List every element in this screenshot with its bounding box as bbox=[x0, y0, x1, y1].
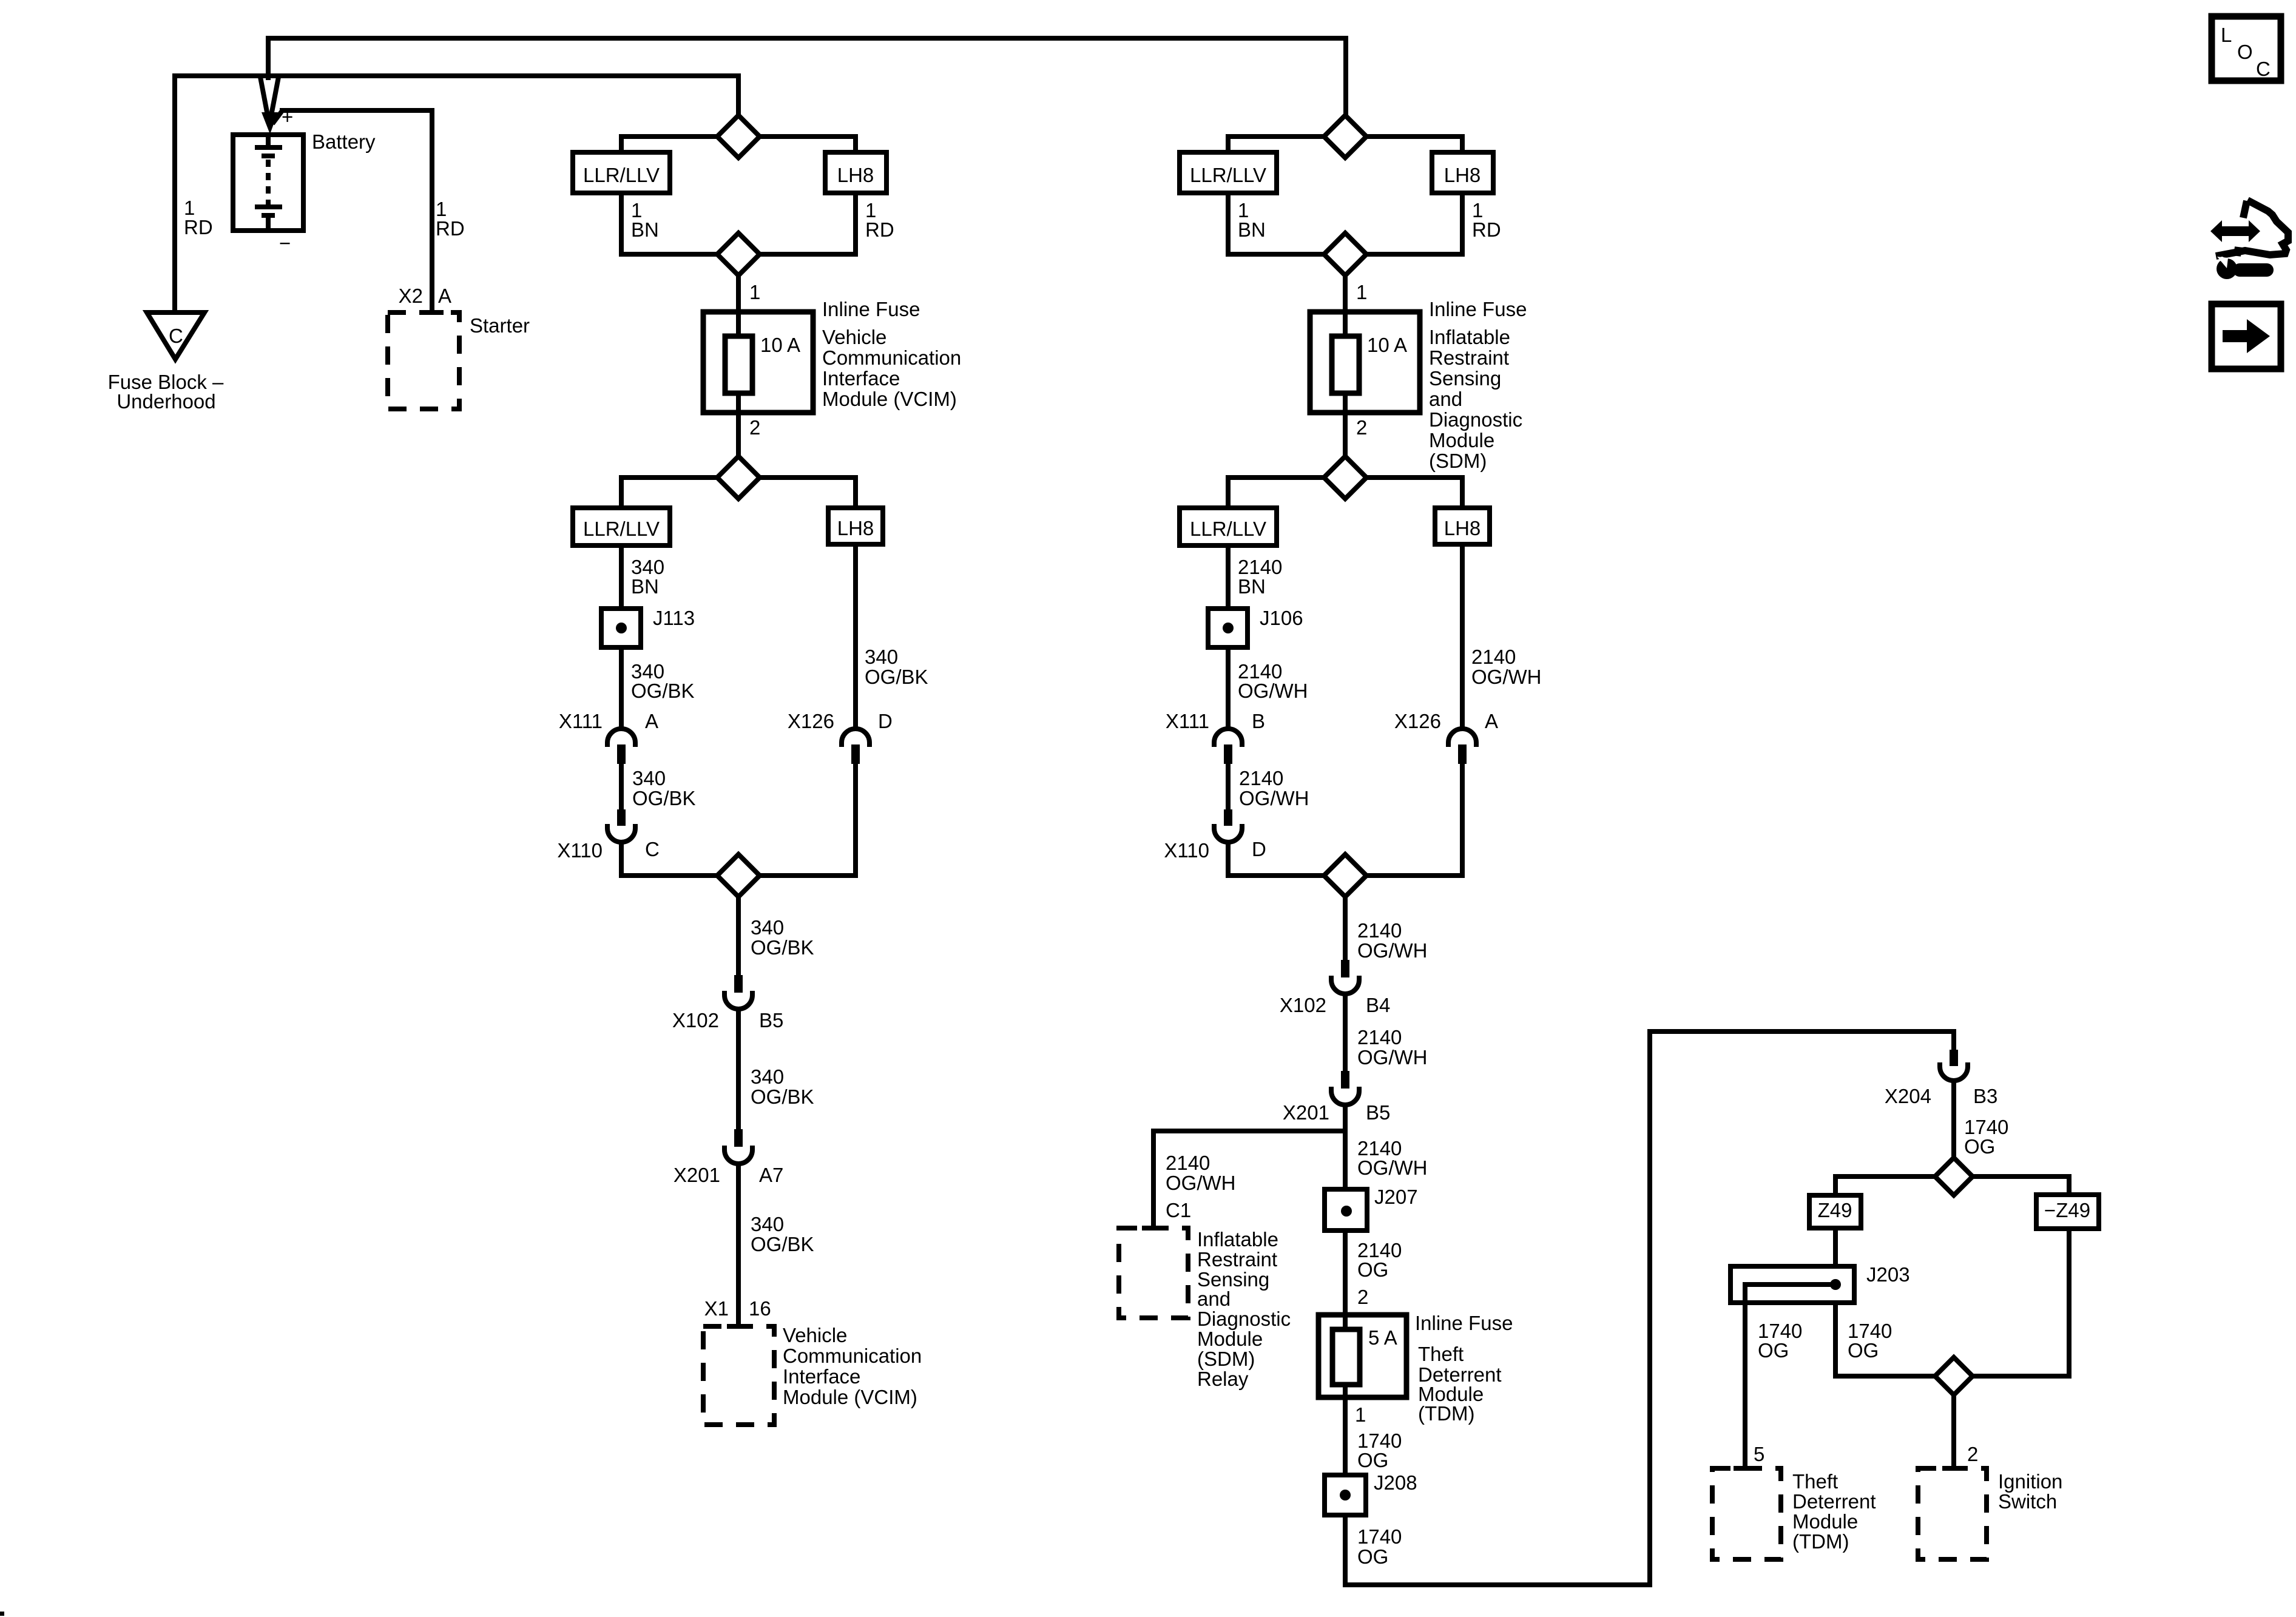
Vehicle Communication Interface Module (VCIM) bbox=[703, 1326, 774, 1425]
wire to fuse pin 1 (VCIM) bbox=[736, 275, 741, 314]
wire 1 RD (SDM) bbox=[1345, 193, 1462, 254]
svg-text:X126: X126 bbox=[788, 710, 834, 732]
svg-text:10 A: 10 A bbox=[1367, 334, 1407, 356]
svg-text:Restraint: Restraint bbox=[1197, 1248, 1277, 1271]
node: SDM split diamond bbox=[1324, 456, 1366, 499]
wire: battery positive second bus to VCIM branch bbox=[175, 76, 738, 312]
svg-text:B: B bbox=[1252, 710, 1265, 732]
svg-text:+: + bbox=[282, 106, 293, 128]
option box LLR/LLV (SDM upper) bbox=[1180, 152, 1277, 193]
svg-text:A: A bbox=[1485, 710, 1498, 732]
svg-text:OG/BK: OG/BK bbox=[751, 1085, 814, 1108]
svg-text:−Z49: −Z49 bbox=[2044, 1199, 2090, 1221]
wire 2140 OG/WH (below merge, SDM) bbox=[1343, 894, 1348, 960]
node: VCIM top splice diamond bbox=[717, 115, 760, 158]
net Z49 bbox=[1809, 1195, 1861, 1228]
svg-text:BN: BN bbox=[1238, 218, 1266, 241]
svg-text:OG/WH: OG/WH bbox=[1357, 1046, 1427, 1068]
svg-text:OG/WH: OG/WH bbox=[1471, 666, 1541, 688]
svg-text:C: C bbox=[169, 325, 183, 347]
svg-text:RD: RD bbox=[184, 216, 213, 238]
splice J208 bbox=[1325, 1475, 1366, 1515]
svg-text:2140: 2140 bbox=[1166, 1152, 1210, 1174]
svg-text:Diagnostic: Diagnostic bbox=[1197, 1308, 1291, 1330]
svg-text:Z49: Z49 bbox=[1818, 1199, 1852, 1221]
node: SDM merge diamond bbox=[1324, 233, 1366, 275]
svg-text:X102: X102 bbox=[672, 1009, 719, 1031]
svg-text:LH8: LH8 bbox=[1444, 164, 1481, 186]
svg-text:1: 1 bbox=[1355, 1403, 1366, 1426]
connector X201 pin B5 (SDM) bbox=[1341, 1071, 1349, 1089]
svg-text:A7: A7 bbox=[759, 1164, 783, 1186]
svg-text:D: D bbox=[1252, 838, 1266, 860]
svg-text:Starter: Starter bbox=[470, 314, 530, 337]
option box LLR/LLV (SDM lower) bbox=[1180, 508, 1277, 545]
svg-text:X126: X126 bbox=[1394, 710, 1441, 732]
svg-text:Ignition: Ignition bbox=[1998, 1470, 2062, 1493]
wire 1 BN (SDM) bbox=[1228, 193, 1345, 254]
svg-text:(TDM): (TDM) bbox=[1792, 1530, 1849, 1553]
wire Z49 to J203 bbox=[1835, 1228, 1954, 1376]
splice J207 bbox=[1325, 1189, 1367, 1230]
svg-text:A: A bbox=[645, 710, 658, 732]
svg-text:X110: X110 bbox=[1164, 839, 1209, 862]
svg-text:OG/BK: OG/BK bbox=[751, 936, 814, 959]
svg-text:OG: OG bbox=[1848, 1339, 1879, 1362]
wire 340 OG/BK (below merge, VCIM) bbox=[736, 894, 741, 975]
node: VCIM split diamond bbox=[717, 456, 760, 499]
svg-text:X102: X102 bbox=[1280, 994, 1326, 1016]
svg-text:Theft: Theft bbox=[1792, 1470, 1838, 1493]
svg-text:B4: B4 bbox=[1366, 994, 1390, 1016]
svg-text:LH8: LH8 bbox=[1444, 517, 1481, 539]
svg-text:B5: B5 bbox=[759, 1009, 783, 1031]
svg-text:LLR/LLV: LLR/LLV bbox=[1190, 518, 1266, 540]
icon: wrench bbox=[2217, 257, 2274, 279]
connector X102 pin B5 bbox=[734, 975, 743, 993]
node: battery positive arrow bbox=[260, 77, 268, 115]
svg-text:Module: Module bbox=[1197, 1328, 1263, 1350]
wire 340 OG/BK (VCIM right) bbox=[853, 544, 858, 729]
svg-text:OG/BK: OG/BK bbox=[632, 787, 696, 809]
connector X110 pin D bbox=[1224, 809, 1232, 826]
svg-text:LLR/LLV: LLR/LLV bbox=[583, 164, 660, 186]
svg-text:1: 1 bbox=[1356, 281, 1367, 303]
svg-text:J106: J106 bbox=[1260, 607, 1303, 629]
svg-text:340: 340 bbox=[865, 646, 898, 668]
wire to -Z49 bbox=[1954, 1176, 2069, 1195]
svg-text:Deterrent: Deterrent bbox=[1792, 1490, 1876, 1513]
wire fuse to split diamond (SDM) bbox=[1343, 413, 1348, 478]
svg-text:J113: J113 bbox=[653, 607, 695, 629]
svg-text:Inflatable: Inflatable bbox=[1429, 326, 1510, 348]
wire: VCIM diamond to LLR/LLV bbox=[621, 137, 738, 152]
svg-text:Module: Module bbox=[1792, 1510, 1858, 1533]
connector X111 pin B bbox=[1214, 729, 1242, 747]
wire: SDM diamond to LLR/LLV bbox=[1228, 137, 1345, 152]
svg-text:OG: OG bbox=[1357, 1545, 1388, 1568]
svg-text:OG/BK: OG/BK bbox=[751, 1233, 814, 1255]
svg-text:BN: BN bbox=[631, 575, 659, 598]
option box LH8 (SDM upper) bbox=[1432, 152, 1493, 193]
svg-text:X111: X111 bbox=[1166, 710, 1209, 732]
option box LLR/LLV (VCIM upper) bbox=[573, 152, 670, 193]
ground/fuse-block symbol C bbox=[147, 312, 204, 359]
svg-text:J208: J208 bbox=[1374, 1471, 1417, 1494]
svg-text:1740: 1740 bbox=[1357, 1525, 1402, 1548]
option box LLR/LLV (VCIM lower) bbox=[573, 508, 670, 545]
node: VCIM merge diamond bbox=[717, 233, 760, 275]
starter module bbox=[388, 312, 459, 409]
svg-text:(SDM): (SDM) bbox=[1429, 450, 1487, 472]
svg-text:2: 2 bbox=[749, 416, 760, 439]
wire: VCIM split to LH8 lower bbox=[738, 478, 856, 508]
inline fuse 10 A (VCIM) bbox=[703, 312, 813, 413]
svg-text:2140: 2140 bbox=[1471, 646, 1516, 668]
svg-text:Inline Fuse: Inline Fuse bbox=[1429, 298, 1527, 320]
svg-text:D: D bbox=[878, 710, 893, 732]
wire 2140 OG/WH (X111 to X110) bbox=[1226, 764, 1231, 809]
wire junction to SDM relay branch bbox=[1343, 1106, 1348, 1191]
node: SDM lower merge diamond bbox=[1324, 854, 1366, 897]
svg-text:2140: 2140 bbox=[1357, 1026, 1402, 1048]
svg-text:OG/WH: OG/WH bbox=[1166, 1172, 1235, 1194]
wire X126 to merge (SDM) bbox=[1345, 764, 1462, 876]
svg-text:J203: J203 bbox=[1866, 1263, 1910, 1286]
wire -Z49 down bbox=[1954, 1229, 2069, 1376]
svg-text:B3: B3 bbox=[1973, 1085, 1997, 1107]
battery B+ bbox=[233, 135, 303, 231]
svg-text:RD: RD bbox=[436, 217, 465, 240]
wire 340 OG/BK (VCIM left) bbox=[619, 647, 624, 729]
svg-text:Theft: Theft bbox=[1418, 1343, 1464, 1365]
wire 2140 OG/WH (SDM right) bbox=[1460, 544, 1465, 729]
svg-text:2: 2 bbox=[1357, 1286, 1368, 1308]
svg-text:340: 340 bbox=[751, 1213, 784, 1235]
svg-text:BN: BN bbox=[631, 218, 659, 241]
Theft Deterrent Module (TDM) bbox=[1712, 1468, 1781, 1559]
wire to Z49 bbox=[1835, 1176, 1954, 1195]
svg-text:X111: X111 bbox=[559, 710, 603, 732]
svg-text:OG: OG bbox=[1964, 1135, 1995, 1158]
svg-text:Module (VCIM): Module (VCIM) bbox=[783, 1386, 917, 1408]
svg-text:C1: C1 bbox=[1166, 1199, 1191, 1221]
net -Z49 bbox=[2036, 1195, 2099, 1229]
wire 2140 BN (SDM) bbox=[1226, 545, 1231, 609]
wire 340 BN (VCIM) bbox=[619, 545, 624, 609]
svg-text:OG/BK: OG/BK bbox=[631, 680, 695, 702]
svg-text:LH8: LH8 bbox=[837, 164, 874, 186]
svg-text:X201: X201 bbox=[674, 1164, 720, 1186]
node: VCIM lower merge diamond bbox=[717, 854, 760, 897]
wire: SDM diamond to LH8 bbox=[1345, 137, 1462, 152]
svg-text:L: L bbox=[2221, 24, 2232, 46]
option box LH8 (VCIM lower) bbox=[828, 508, 883, 544]
inline fuse 5 A (TDM) bbox=[1319, 1315, 1406, 1397]
wire: SDM split to LLR/LLV lower bbox=[1228, 478, 1345, 508]
svg-text:1: 1 bbox=[749, 281, 760, 303]
svg-text:OG/WH: OG/WH bbox=[1357, 939, 1427, 962]
wire fuse to split diamond (VCIM) bbox=[736, 413, 741, 478]
svg-text:LLR/LLV: LLR/LLV bbox=[583, 518, 660, 540]
svg-text:2: 2 bbox=[1967, 1443, 1978, 1465]
node: Z49 split diamond bbox=[1935, 1158, 1973, 1195]
svg-text:2140: 2140 bbox=[1239, 767, 1283, 789]
svg-text:2140: 2140 bbox=[1357, 919, 1402, 942]
svg-text:OG: OG bbox=[1357, 1258, 1388, 1281]
svg-text:O: O bbox=[2237, 41, 2253, 63]
svg-text:Vehicle: Vehicle bbox=[822, 326, 886, 348]
svg-text:Module (VCIM): Module (VCIM) bbox=[822, 388, 957, 410]
svg-text:16: 16 bbox=[749, 1297, 771, 1320]
wire X110 to merge (VCIM) bbox=[621, 842, 738, 876]
wire 1 BN (VCIM) bbox=[621, 193, 738, 254]
svg-text:OG/WH: OG/WH bbox=[1238, 680, 1308, 702]
svg-text:Interface: Interface bbox=[822, 367, 900, 390]
wire 2140 OG/WH (SDM left) bbox=[1226, 647, 1231, 729]
node: SDM top splice diamond bbox=[1324, 115, 1366, 158]
wire X126 to merge (VCIM) bbox=[738, 764, 856, 876]
svg-text:J207: J207 bbox=[1374, 1186, 1418, 1208]
svg-text:A: A bbox=[438, 285, 451, 307]
svg-text:5 A: 5 A bbox=[1368, 1326, 1397, 1349]
wire: SDM split to LH8 lower bbox=[1345, 478, 1462, 508]
svg-text:(SDM): (SDM) bbox=[1197, 1348, 1255, 1370]
svg-text:LH8: LH8 bbox=[837, 517, 874, 539]
svg-text:C: C bbox=[2256, 58, 2271, 80]
svg-text:LLR/LLV: LLR/LLV bbox=[1190, 164, 1266, 186]
wire: VCIM diamond to LH8 bbox=[738, 137, 856, 152]
wire 340 OG/BK (X102 to X201) bbox=[736, 1010, 741, 1129]
svg-text:Inline Fuse: Inline Fuse bbox=[1415, 1312, 1513, 1334]
connector X110 pin C bbox=[617, 809, 626, 826]
connector X126 pin D bbox=[842, 729, 869, 747]
wire: VCIM split to LLR/LLV lower bbox=[621, 478, 738, 508]
connector X102 pin B4 bbox=[1341, 960, 1349, 977]
connector X204 pin B3 bbox=[1950, 1050, 1958, 1066]
svg-text:340: 340 bbox=[632, 767, 666, 789]
icon: forward arrow box bbox=[2212, 304, 2281, 369]
svg-text:Interface: Interface bbox=[783, 1365, 860, 1388]
svg-text:Diagnostic: Diagnostic bbox=[1429, 408, 1522, 431]
connector X111 pin A bbox=[607, 729, 635, 747]
svg-text:Vehicle: Vehicle bbox=[783, 1324, 847, 1346]
svg-text:B5: B5 bbox=[1366, 1101, 1390, 1124]
wire 340 OG/BK (X201 to VCIM) bbox=[736, 1164, 741, 1326]
wire 1740 OG (X204 to split) bbox=[1951, 1081, 1956, 1156]
svg-text:Relay: Relay bbox=[1197, 1368, 1249, 1390]
wire 2140 OG (J207 to TDM fuse) bbox=[1343, 1230, 1348, 1315]
svg-text:OG: OG bbox=[1758, 1339, 1789, 1362]
node: ignition merge diamond bbox=[1935, 1357, 1973, 1395]
svg-text:OG/WH: OG/WH bbox=[1357, 1156, 1427, 1179]
splice J203 bbox=[1730, 1266, 1854, 1303]
svg-text:RD: RD bbox=[865, 218, 894, 241]
inline fuse 10 A (SDM) bbox=[1310, 312, 1420, 413]
wire X110 to merge (SDM) bbox=[1228, 842, 1345, 876]
svg-text:Underhood: Underhood bbox=[116, 390, 215, 413]
svg-text:X110: X110 bbox=[557, 839, 603, 862]
wire: starter feed bbox=[272, 112, 282, 124]
svg-text:10 A: 10 A bbox=[760, 334, 800, 356]
wire: battery positive top bus to SDM branch bbox=[268, 38, 1346, 115]
icon: vehicle data / tools pictogram bbox=[2216, 200, 2288, 256]
Ignition Switch bbox=[1918, 1468, 1987, 1559]
svg-text:Battery: Battery bbox=[312, 130, 376, 153]
svg-text:OG/BK: OG/BK bbox=[865, 666, 928, 688]
wire 340 OG/BK (X111 to X110) bbox=[619, 764, 624, 809]
option box LH8 (VCIM upper) bbox=[825, 152, 886, 193]
svg-text:Inline Fuse: Inline Fuse bbox=[822, 298, 920, 320]
svg-text:RD: RD bbox=[1472, 218, 1501, 241]
svg-text:Module: Module bbox=[1429, 429, 1494, 451]
option box LH8 (SDM lower) bbox=[1435, 508, 1490, 544]
svg-text:X1: X1 bbox=[704, 1297, 729, 1320]
svg-text:Switch: Switch bbox=[1998, 1490, 2057, 1513]
svg-text:C: C bbox=[645, 838, 660, 860]
wire 2140 OG/WH (X102 to X201) bbox=[1343, 994, 1348, 1071]
Inflatable Restraint Sensing and Diagnostic Module (SDM) Relay bbox=[1119, 1228, 1188, 1318]
svg-text:OG: OG bbox=[1357, 1449, 1388, 1471]
connector X126 pin A bbox=[1448, 729, 1476, 747]
svg-text:2: 2 bbox=[1356, 416, 1367, 439]
svg-text:Restraint: Restraint bbox=[1429, 346, 1509, 369]
svg-text:and: and bbox=[1429, 388, 1462, 410]
wire 1 RD (VCIM) bbox=[738, 193, 856, 254]
splice J113 bbox=[601, 609, 641, 647]
svg-text:Sensing: Sensing bbox=[1429, 367, 1501, 390]
svg-text:BN: BN bbox=[1238, 575, 1266, 598]
svg-text:Communication: Communication bbox=[783, 1345, 922, 1367]
svg-text:X2: X2 bbox=[399, 285, 423, 307]
svg-text:Inflatable: Inflatable bbox=[1197, 1228, 1278, 1251]
svg-text:and: and bbox=[1197, 1288, 1231, 1310]
scan artifact dot (bottom-left) bbox=[0, 1612, 4, 1616]
splice J106 bbox=[1208, 609, 1248, 647]
wire to ignition switch pin 2 bbox=[1951, 1393, 1956, 1468]
svg-text:(TDM): (TDM) bbox=[1418, 1402, 1474, 1425]
connector X201 pin A7 bbox=[734, 1129, 743, 1147]
wire to fuse pin 1 (SDM) bbox=[1343, 275, 1348, 314]
svg-text:X201: X201 bbox=[1283, 1101, 1329, 1124]
svg-text:OG/WH: OG/WH bbox=[1239, 787, 1309, 809]
icon: LOC legend box bbox=[2212, 16, 2281, 81]
svg-text:5: 5 bbox=[1754, 1443, 1764, 1465]
svg-text:Communication: Communication bbox=[822, 346, 961, 369]
wire 1740 OG (fuse to J208) bbox=[1343, 1397, 1348, 1475]
svg-text:X204: X204 bbox=[1885, 1085, 1931, 1107]
svg-text:−: − bbox=[279, 232, 291, 254]
svg-text:340: 340 bbox=[751, 916, 784, 939]
svg-text:340: 340 bbox=[751, 1065, 784, 1088]
